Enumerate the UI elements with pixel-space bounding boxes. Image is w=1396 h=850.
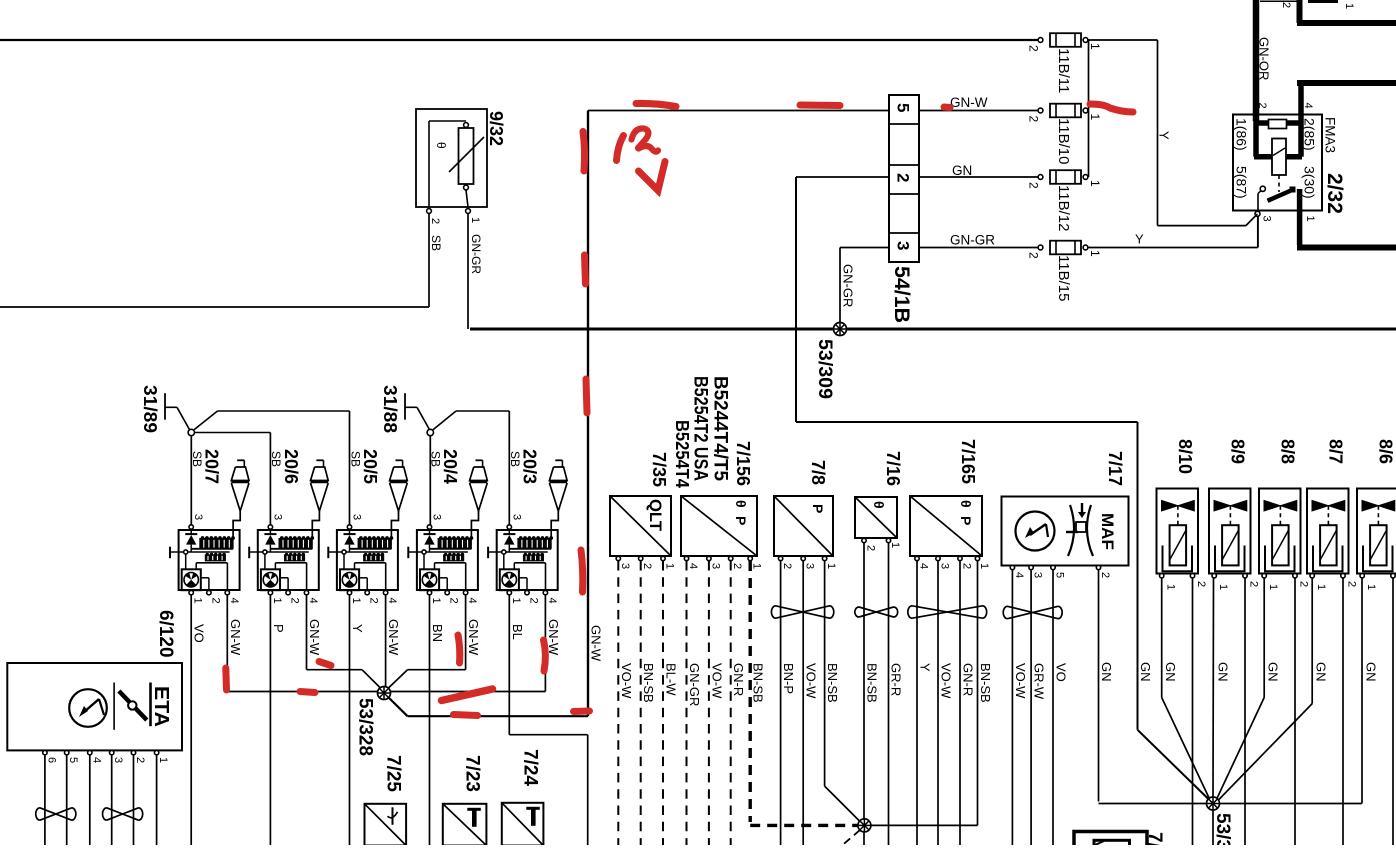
svg-text:VO-W: VO-W [939, 663, 954, 699]
svg-text:8/8: 8/8 [1278, 439, 1298, 464]
svg-text:2: 2 [961, 563, 973, 569]
svg-text:1: 1 [889, 542, 901, 548]
svg-text:P: P [958, 516, 974, 525]
svg-text:4: 4 [687, 563, 699, 569]
svg-text:BN-SB: BN-SB [825, 663, 840, 703]
svg-text:2: 2 [1256, 103, 1268, 109]
svg-text:20/5: 20/5 [360, 449, 380, 484]
svg-text:BN-SB: BN-SB [865, 663, 880, 703]
svg-text:SB: SB [429, 235, 443, 251]
svg-text:2: 2 [1027, 45, 1041, 52]
svg-text:GN: GN [1216, 662, 1231, 682]
svg-text:2: 2 [865, 545, 877, 551]
svg-text:1: 1 [510, 598, 522, 604]
svg-text:8/10: 8/10 [1175, 439, 1195, 474]
svg-text:2(85): 2(85) [1302, 118, 1318, 151]
svg-text:20/6: 20/6 [281, 449, 301, 484]
svg-text:VO: VO [1054, 663, 1069, 682]
svg-text:4: 4 [1302, 103, 1314, 109]
svg-text:BL: BL [510, 624, 525, 640]
svg-text:1: 1 [978, 563, 990, 569]
svg-text:θ: θ [958, 500, 974, 508]
svg-text:VO-W: VO-W [804, 663, 819, 699]
svg-text:GN-W: GN-W [589, 625, 604, 662]
svg-text:2: 2 [1346, 581, 1358, 587]
svg-text:1: 1 [1088, 250, 1102, 257]
svg-text:GR-R: GR-R [889, 663, 904, 696]
svg-text:2: 2 [1027, 116, 1041, 123]
svg-text:53/3 35: 53/3 35 [1212, 813, 1233, 845]
svg-text:7/25: 7/25 [383, 755, 404, 792]
svg-text:1: 1 [1343, 3, 1355, 9]
svg-text:4: 4 [1013, 572, 1025, 578]
svg-text:11B/15: 11B/15 [1055, 255, 1072, 301]
svg-text:VO-W: VO-W [709, 663, 724, 699]
svg-text:7/16: 7/16 [883, 451, 903, 486]
svg-text:B5244T4/T5: B5244T4/T5 [710, 376, 731, 481]
svg-text:5: 5 [1054, 572, 1066, 578]
svg-text:GN: GN [1364, 662, 1379, 682]
svg-text:P: P [271, 624, 286, 633]
svg-text:7/35: 7/35 [649, 452, 669, 487]
svg-text:B5254T2 USA: B5254T2 USA [690, 376, 711, 481]
svg-text:GN-GR: GN-GR [950, 233, 995, 248]
svg-text:Y: Y [918, 663, 933, 672]
svg-text:2: 2 [429, 218, 441, 224]
svg-text:5: 5 [67, 757, 79, 763]
svg-text:4: 4 [228, 598, 240, 604]
svg-text:7/24: 7/24 [520, 749, 541, 786]
svg-text:1: 1 [1315, 584, 1327, 590]
svg-text:BN-SB: BN-SB [978, 663, 993, 703]
svg-text:20/7: 20/7 [202, 449, 222, 484]
svg-text:P: P [810, 504, 826, 513]
svg-text:1: 1 [469, 217, 481, 223]
svg-text:BN-SB: BN-SB [751, 663, 766, 703]
svg-text:2: 2 [368, 598, 380, 604]
svg-text:11B/10: 11B/10 [1055, 118, 1072, 164]
svg-text:θ: θ [434, 142, 448, 149]
svg-text:4: 4 [386, 598, 398, 604]
svg-text:2: 2 [134, 757, 146, 763]
svg-text:2: 2 [1248, 581, 1260, 587]
svg-text:1: 1 [1088, 180, 1102, 187]
svg-text:GN-GR: GN-GR [841, 264, 856, 307]
svg-text:1: 1 [1165, 584, 1177, 590]
svg-text:GN: GN [952, 163, 972, 178]
svg-text:GN-W: GN-W [466, 619, 481, 656]
svg-text:P: P [733, 516, 749, 525]
svg-text:31/89: 31/89 [140, 385, 160, 433]
svg-text:2: 2 [781, 563, 793, 569]
svg-text:1: 1 [664, 563, 676, 569]
svg-text:BN: BN [430, 624, 445, 642]
svg-text:2: 2 [641, 563, 653, 569]
svg-text:Y: Y [1157, 131, 1172, 140]
svg-text:31/88: 31/88 [380, 385, 400, 433]
svg-text:QLT: QLT [646, 499, 665, 532]
svg-text:11B/12: 11B/12 [1055, 185, 1072, 231]
svg-text:11B/11: 11B/11 [1055, 48, 1072, 93]
svg-text:3: 3 [351, 514, 363, 520]
svg-text:4: 4 [546, 598, 558, 604]
svg-text:FMA3: FMA3 [1323, 117, 1338, 153]
svg-text:8/9: 8/9 [1228, 439, 1248, 464]
svg-text:1(86): 1(86) [1234, 118, 1250, 151]
svg-text:2: 2 [1027, 252, 1041, 259]
svg-text:20/4: 20/4 [440, 449, 460, 484]
svg-text:1: 1 [1267, 584, 1279, 590]
svg-text:3: 3 [192, 514, 204, 520]
svg-text:θ: θ [733, 500, 749, 508]
svg-text:9/32: 9/32 [486, 111, 506, 146]
svg-text:1: 1 [825, 563, 837, 569]
svg-text:VO: VO [192, 624, 207, 643]
svg-text:3: 3 [112, 757, 124, 763]
svg-text:GN: GN [1099, 662, 1114, 682]
svg-text:GN-W: GN-W [386, 619, 401, 656]
svg-text:3: 3 [431, 514, 443, 520]
svg-text:Y: Y [1135, 232, 1144, 247]
svg-text:7/8: 7/8 [808, 460, 828, 485]
svg-text:3: 3 [1261, 216, 1273, 222]
svg-text:3: 3 [804, 563, 816, 569]
svg-text:GN-W: GN-W [307, 619, 322, 656]
svg-text:θ: θ [871, 501, 887, 509]
svg-text:GN-R: GN-R [961, 663, 976, 696]
svg-text:1: 1 [1304, 216, 1316, 222]
svg-text:1: 1 [271, 598, 283, 604]
svg-text:GN-W: GN-W [950, 95, 988, 110]
svg-text:20/3: 20/3 [520, 449, 540, 484]
svg-text:GN-GR: GN-GR [687, 663, 702, 706]
svg-text:B5254T4: B5254T4 [672, 420, 692, 488]
svg-text:GN-R: GN-R [731, 663, 746, 696]
svg-text:7/23: 7/23 [462, 755, 483, 792]
svg-text:3: 3 [894, 241, 913, 250]
svg-text:6: 6 [45, 757, 57, 763]
svg-text:3: 3 [1032, 572, 1044, 578]
svg-text:3: 3 [271, 514, 283, 520]
svg-text:2: 2 [1298, 581, 1310, 587]
svg-text:4: 4 [307, 598, 319, 604]
svg-text:1: 1 [157, 757, 169, 763]
svg-text:GN-GR: GN-GR [469, 234, 483, 274]
svg-text:3: 3 [619, 563, 631, 569]
svg-text:2: 2 [894, 173, 913, 182]
svg-text:1: 1 [751, 563, 763, 569]
svg-text:VO-W: VO-W [619, 663, 634, 699]
svg-text:7/165: 7/165 [958, 439, 978, 484]
svg-text:7/5: 7/5 [1144, 832, 1165, 845]
svg-text:3: 3 [510, 514, 522, 520]
svg-text:6/120: 6/120 [155, 610, 176, 658]
svg-text:8/6: 8/6 [1376, 439, 1396, 464]
svg-text:GN: GN [1314, 662, 1329, 682]
svg-text:4: 4 [90, 757, 102, 763]
svg-text:5(87): 5(87) [1234, 166, 1250, 199]
svg-text:2: 2 [289, 598, 301, 604]
svg-text:54/1B: 54/1B [890, 266, 913, 323]
svg-text:2: 2 [731, 563, 743, 569]
svg-text:1: 1 [1088, 114, 1102, 121]
svg-text:1: 1 [1217, 584, 1229, 590]
svg-text:MAF: MAF [1098, 513, 1117, 550]
svg-text:4: 4 [918, 563, 930, 569]
svg-text:3: 3 [939, 563, 951, 569]
svg-text:1: 1 [430, 598, 442, 604]
svg-text:ETA: ETA [150, 686, 172, 727]
svg-text:1: 1 [350, 598, 362, 604]
svg-text:BL-W: BL-W [664, 663, 679, 696]
svg-text:BN-P: BN-P [781, 663, 796, 694]
svg-text:2: 2 [1195, 581, 1207, 587]
svg-text:2: 2 [448, 598, 460, 604]
svg-text:1: 1 [192, 598, 204, 604]
svg-text:GN: GN [1163, 662, 1178, 682]
svg-text:GN: GN [1266, 662, 1281, 682]
svg-text:BN-SB: BN-SB [641, 663, 656, 703]
svg-text:53/328: 53/328 [355, 698, 376, 756]
svg-text:1: 1 [1088, 43, 1102, 50]
svg-text:GN-W: GN-W [228, 619, 243, 656]
svg-text:2: 2 [1280, 2, 1292, 8]
svg-text:Y: Y [350, 624, 365, 633]
svg-text:2: 2 [1099, 572, 1111, 578]
svg-text:GN-OR: GN-OR [1257, 37, 1272, 80]
svg-text:2: 2 [1027, 182, 1041, 189]
svg-text:3(30): 3(30) [1302, 166, 1318, 199]
svg-text:1: 1 [1365, 584, 1377, 590]
svg-text:2/32: 2/32 [1323, 173, 1346, 214]
svg-text:53/309: 53/309 [814, 339, 835, 399]
svg-text:5: 5 [894, 103, 913, 112]
svg-text:GR-W: GR-W [1032, 663, 1047, 700]
svg-text:7/156: 7/156 [733, 441, 753, 486]
svg-text:2: 2 [528, 598, 540, 604]
svg-text:8/7: 8/7 [1326, 439, 1346, 464]
svg-text:VO-W: VO-W [1013, 663, 1028, 699]
svg-text:3: 3 [709, 563, 721, 569]
svg-text:7/17: 7/17 [1105, 451, 1125, 486]
svg-text:2: 2 [209, 598, 221, 604]
svg-text:4: 4 [466, 598, 478, 604]
svg-text:GN: GN [1138, 662, 1153, 682]
